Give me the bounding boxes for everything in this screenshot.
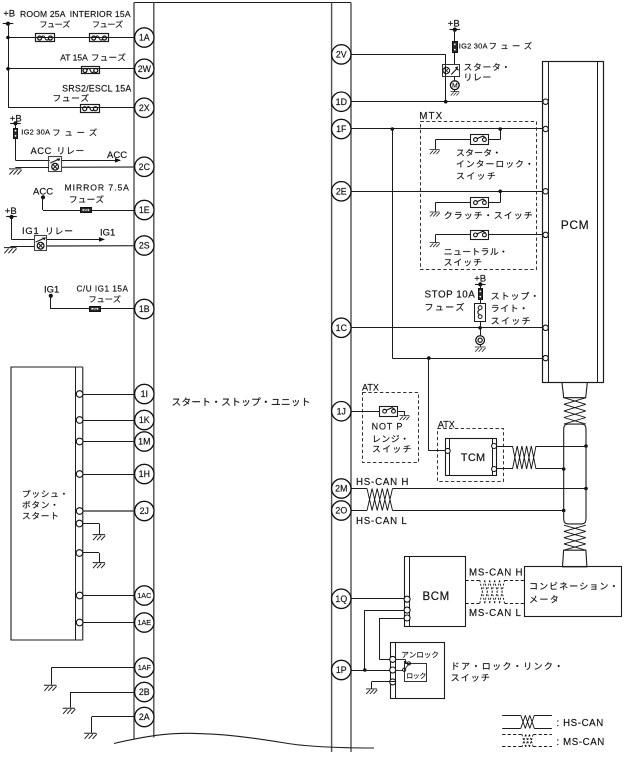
svg-text:1P: 1P [336,665,347,675]
label combination meter [530,582,615,603]
connector 1AC [135,586,154,605]
wire push-button to 1AC [83,595,135,597]
label C/U IG1 15A fuse [77,285,129,303]
svg-text:1AE: 1AE [138,618,152,627]
diagram break wavy line [114,733,374,748]
connector 1E [135,200,154,219]
label starter relay [464,63,506,81]
svg-text:ROOM 25A: ROOM 25A [20,9,66,19]
fuse STOP 10A [479,289,483,300]
wire interlock to 1F [489,129,501,140]
pin PCM neutral [543,232,548,237]
switch clutch [471,198,489,208]
wire clutch to 2E [489,191,501,202]
pin push-button ground 1 [76,520,83,527]
wire neutral to PCM [489,234,543,236]
connector 2W [135,59,154,78]
ground IG1 relay [4,247,34,254]
wire push-button to 1H [83,474,135,476]
label MS-CAN L [469,608,522,619]
door lock link switch box [391,643,445,699]
svg-text:IG2 30A: IG2 30A [459,42,488,51]
pin PCM 1F [543,126,548,131]
svg-text:M: M [452,83,458,90]
ground 2B [63,692,135,714]
pin PCM 2E [543,189,548,194]
svg-text:IG1: IG1 [100,228,115,239]
connector 1J [332,402,351,421]
ground stop light switch [475,344,486,351]
svg-text:MS-CAN L: MS-CAN L [469,608,522,619]
combination meter box [525,567,622,617]
label ATX (NOT P) [362,383,379,393]
svg-text:+B: +B [3,9,15,20]
wire row 1E [43,210,135,212]
connector 1F [332,119,351,138]
twisted pair MS-CAN [480,580,505,603]
label AT 15A fuse [60,52,125,62]
pin push-button 1M row [76,438,83,445]
svg-text:1M: 1M [138,437,150,447]
push-button start unit box [11,367,83,641]
fuse C/U IG1 15A [90,307,101,312]
label unlock [402,651,438,658]
svg-text:IG1: IG1 [22,225,40,236]
wire 2O to bus [351,509,566,513]
svg-text:IG1: IG1 [44,285,59,296]
ground door lock switch [366,682,396,694]
ground 1AF [44,668,135,691]
connector 1H [135,464,154,483]
label INTERIOR 15A fuse [70,9,131,28]
connector 1A [135,28,154,47]
svg-text:1E: 1E [139,205,150,215]
wire fuse to relay [454,52,456,64]
pin BCM 3 [404,615,410,621]
switch stop light [475,304,486,322]
label push button start [23,490,65,520]
label MS-CAN H [469,568,523,579]
svg-text:TCM: TCM [461,452,486,464]
label STOP 10A fuse [425,290,476,311]
ECU PCM box [543,61,604,382]
pin BCM 2 [404,607,410,613]
wire row 1A [6,36,135,40]
fuse AT 15A [82,67,100,74]
wire row 2W [6,67,135,71]
pin push-button 1AC row [76,592,83,599]
wire row 1B [51,308,135,310]
ground ACC relay [9,168,49,175]
connector 1K [135,410,154,429]
PCM bottom tab [562,383,587,398]
ground push-button 1 [83,524,105,541]
svg-text:1AC: 1AC [137,591,151,600]
connector 1D [332,92,351,111]
svg-text:HS-CAN L: HS-CAN L [356,516,408,527]
svg-text:1D: 1D [336,97,347,107]
svg-text:2O: 2O [335,506,347,516]
label ACC relay [31,145,84,156]
label start-stop unit [172,397,309,406]
twisted pair HS-CAN [367,489,393,511]
connector 1B [135,299,154,318]
node IG1 (C/U feed) [44,285,59,310]
pin lock switch common [390,667,396,673]
connector 2J [135,501,154,520]
start-stop unit box (main ECU outline) [134,3,351,753]
wire BCM pin2 to 1P [363,610,404,672]
wire TCM CAN-L to bus [497,467,566,471]
power +B node (top left) [3,9,15,108]
svg-text:INTERIOR 15A: INTERIOR 15A [70,9,131,19]
wire TEN branch to TCM [429,358,446,451]
switch neutral [471,231,489,240]
power +B node (IG2 feed) [10,113,22,128]
svg-text:BCM: BCM [423,591,450,603]
svg-text:C/U IG1 15A: C/U IG1 15A [77,285,129,294]
svg-text:2X: 2X [139,103,150,113]
svg-text:2C: 2C [139,162,151,172]
wire MS-CAN H dashed [466,580,525,582]
connector 2S [135,236,154,255]
connector 1Q [332,589,351,608]
fuse ROOM 25A [36,34,55,42]
connector 1I [135,384,154,403]
wire IG2 fuse to ACC relay [16,138,50,160]
connector 1AE [135,613,154,632]
fuse IG2 30A (right) [453,42,458,53]
connector 1P [332,660,351,679]
wire 1Q to BCM [351,598,404,600]
pin push-button 2J row [76,508,83,515]
svg-text:: HS-CAN: : HS-CAN [557,718,604,729]
wire relay to 2S [47,245,135,247]
ground starter interlock [430,140,471,155]
svg-text:2M: 2M [335,484,347,494]
svg-text:1A: 1A [139,33,150,43]
pin TCM CAN-L [492,467,497,472]
ground NOT P switch [398,411,409,420]
pin push-button 1K row [76,417,83,424]
svg-text:2A: 2A [139,712,150,722]
ground clutch switch [430,203,471,217]
svg-text:2J: 2J [140,506,149,516]
twisted pair TCM [513,446,537,469]
lock switch contacts [396,659,411,671]
svg-text:1F: 1F [336,124,347,134]
wire 1F branch to PCM low pin [392,129,543,360]
label IG2 30A fuse left [21,128,97,137]
pin push-button 1AE row [76,619,83,626]
svg-text:2B: 2B [139,687,150,697]
label IG2 30A fuse right [459,42,532,51]
connector 2O [332,501,351,520]
svg-text:AT 15A: AT 15A [60,52,88,62]
ATX dashed box (TCM) [438,429,504,482]
label TCM [461,452,486,464]
svg-text:1AF: 1AF [138,663,152,672]
connector 2E [332,182,351,201]
pin push-button ground 2 [76,550,83,557]
fuse MIRROR 7.5A [81,208,92,213]
svg-text:1C: 1C [336,323,348,333]
lock contact box [405,664,427,682]
power +B node (stop lamp) [474,274,486,290]
svg-text:+B: +B [448,18,460,29]
wire row 1C to PCM [351,326,543,330]
connector 1M [135,432,154,451]
wire relay to 2C [62,166,135,168]
wire row 1D to PCM [351,100,543,104]
wire row 2X [8,107,135,109]
pin PCM TEN [543,355,548,360]
pin push-button 1H row [76,471,83,478]
ATX dashed box (NOT P) [363,393,419,463]
MTX dashed box [421,122,537,270]
fuse SRS2/ESCL 15A [81,105,100,113]
connector 2X [135,98,154,117]
svg-text:1Q: 1Q [335,594,347,604]
label BCM [423,591,450,603]
wire BCM pin3 to unlock [379,618,404,660]
pin BCM 1 [404,596,410,602]
svg-text:2W: 2W [138,64,152,74]
starter motor M [450,81,459,90]
label SRS2/ESCL 15A fuse [54,83,132,101]
wire push-button to 1K [83,420,135,422]
label HS-CAN H [356,477,409,488]
wire fuse to stop switch [480,299,482,303]
wire relay to motor [454,76,456,81]
legend MS-CAN [502,734,605,748]
svg-text:SRS2/ESCL 15A: SRS2/ESCL 15A [62,83,131,93]
pin TCM CAN-H [492,444,497,449]
switch starter interlock [471,135,489,145]
svg-text:2E: 2E [336,186,347,196]
svg-text:PCM: PCM [561,218,589,232]
wire push-button to 1AE [83,622,135,624]
wire 2M to bus [351,487,588,491]
pin PCM 1D [543,99,548,104]
wire switch to 1C row [480,321,482,335]
wire ACC output arrow [62,150,128,162]
svg-text:1H: 1H [139,469,150,479]
connector 2M [332,479,351,498]
pin PCM 1C [543,325,548,330]
pin lock switch ground [390,679,396,685]
ground push-button 2 [83,553,105,569]
label stop light switch [492,292,536,325]
twisted pair bus lower [564,525,586,550]
svg-text:MIRROR 7.5A: MIRROR 7.5A [65,183,130,193]
connector 2A [135,707,154,726]
label MTX [419,111,443,122]
svg-text:MS-CAN H: MS-CAN H [469,568,523,579]
svg-text:STOP 10A: STOP 10A [425,290,476,301]
label PCM [561,218,589,232]
svg-text:ACC: ACC [31,145,52,156]
svg-text:1K: 1K [139,415,150,425]
svg-text:: MS-CAN: : MS-CAN [557,737,605,748]
svg-text:1I: 1I [141,389,148,399]
connector 2C [135,157,154,176]
label door lock link switch [452,662,560,681]
svg-text:1B: 1B [139,304,150,314]
label IG1 relay [22,225,72,236]
fuse INTERIOR 15A [90,34,109,42]
power +B node (starter relay) [448,18,460,41]
wire 2V to starter relay [351,54,446,101]
wire row 1F to PCM [351,127,543,131]
ground neutral switch [430,235,471,248]
svg-text:NOT P: NOT P [372,422,404,432]
label starter interlock switch [457,149,531,180]
wire row 2E to PCM [351,190,543,194]
wire MS-CAN L dashed [466,603,525,605]
power +B node (IG1 feed) [5,206,35,240]
svg-text:2S: 2S [139,241,150,251]
label clutch switch [445,211,532,219]
label neutral switch [445,248,505,266]
relay IG1 [35,236,47,251]
wire IG1 output arrow [47,228,115,242]
svg-text:IG2 30A: IG2 30A [21,128,50,137]
pin lock switch unlock [390,656,396,662]
svg-text:2V: 2V [336,50,347,60]
relay ACC [49,157,62,172]
wire push-button to 1M [83,441,135,443]
svg-text:ACC: ACC [107,150,127,161]
label HS-CAN L [356,516,408,527]
legend HS-CAN [502,715,604,728]
connector 1C [332,318,351,337]
wire 1J to NOT P switch [351,411,380,413]
label ATX (TCM) [438,420,455,430]
svg-text:MTX: MTX [419,111,443,122]
twisted pair bus upper [564,398,586,424]
ECU BCM box [405,557,466,627]
switch NOT P range [380,407,398,417]
wire 1P to lock switch [351,670,390,672]
connector 2V [332,45,351,64]
label MIRROR 7.5A fuse [65,183,130,203]
CAN bus trunk [564,424,586,524]
ground starter motor [450,90,459,96]
svg-text:1J: 1J [337,406,346,416]
label ROOM 25A fuse [20,9,70,28]
svg-text:ATX: ATX [362,383,379,393]
connector 2B [135,682,154,701]
wire push-button to 2J [83,510,135,512]
pin push-button 1I row [76,391,83,398]
relay starter [443,65,460,77]
svg-text:HS-CAN H: HS-CAN H [356,477,409,488]
ECU TCM box [446,438,497,476]
ground 2A [84,717,135,739]
node ACC (mirror feed) [33,187,53,211]
meter top tab [563,550,587,567]
connector 1AF [135,658,154,677]
pin TCM left [445,448,450,453]
label NOT P range switch [372,422,411,453]
connector stop switch ground joint [476,336,485,345]
wire push-button to 1I [83,394,135,396]
fuse IG2 30A (left) [14,129,18,139]
wire TCM CAN-H to bus [497,444,588,448]
